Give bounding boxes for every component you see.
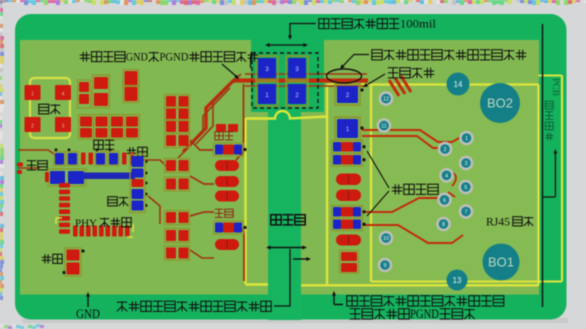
svg-text:8: 8 xyxy=(442,222,445,228)
svg-text:13: 13 xyxy=(453,276,462,285)
label 晶振 xyxy=(39,104,49,114)
blue power bus xyxy=(84,173,135,180)
annotation 此隔离区域不要走任何信号线 xyxy=(117,301,127,311)
transformer width arrow xyxy=(266,246,307,250)
transformer arrow right xyxy=(293,257,311,261)
resistor pad-pair column xyxy=(165,95,190,261)
PCB edge arrow xyxy=(553,149,557,197)
RJ45 pin pads xyxy=(377,91,474,272)
capacitor below PHY xyxy=(62,248,84,276)
svg-text:100mil: 100mil xyxy=(400,18,437,31)
label 电容 (mid) xyxy=(108,197,117,206)
svg-text:4: 4 xyxy=(445,173,448,179)
keepout boundary yellow lines xyxy=(246,76,563,286)
svg-text:1: 1 xyxy=(465,136,468,142)
GND arrow xyxy=(86,292,90,307)
svg-text:GND: GND xyxy=(76,307,100,321)
svg-text:2: 2 xyxy=(443,147,446,153)
mounting pad 14 xyxy=(447,73,470,96)
svg-text:12: 12 xyxy=(383,97,389,103)
RJ45 keepout inner tint xyxy=(371,85,539,282)
svg-text:9: 9 xyxy=(383,263,386,269)
board shadow xyxy=(22,318,568,323)
svg-text:PHY: PHY xyxy=(75,218,97,230)
annotation 我们需将其PGND处理好 xyxy=(350,309,361,319)
bulk capacitors C big pair xyxy=(45,169,86,186)
svg-text:3: 3 xyxy=(464,161,467,167)
svg-text:3: 3 xyxy=(62,124,65,130)
svg-text:RJ45: RJ45 xyxy=(486,217,510,229)
label 变压器 xyxy=(271,215,281,225)
transformer isolation strip xyxy=(268,110,301,320)
leader to traces xyxy=(340,55,369,70)
annotation RJ45网口 xyxy=(486,217,533,229)
red signal traces xyxy=(18,74,463,281)
label 电容 red bottom xyxy=(215,209,223,217)
label 电容 red top xyxy=(215,132,223,140)
annotation 此隔离区域大于100mil xyxy=(319,19,329,29)
mounting hole BO1 xyxy=(483,244,520,281)
PHY chip U1 pins xyxy=(56,183,133,237)
svg-text:BO1: BO1 xyxy=(488,255,514,270)
mounting hole BO2 xyxy=(480,83,520,123)
leader top xyxy=(288,24,316,41)
svg-text:10: 10 xyxy=(383,236,389,242)
mounting pad 13 xyxy=(447,270,468,291)
svg-text:BO2: BO2 xyxy=(487,96,513,111)
PCB edge bracket xyxy=(543,24,556,307)
leader tick xyxy=(250,56,252,68)
svg-text:GND: GND xyxy=(126,51,148,64)
inner copper pour (light green) xyxy=(20,40,539,295)
annotation 共模电阻 xyxy=(392,184,402,194)
capacitor column right of bus xyxy=(130,155,148,213)
pill resistor column xyxy=(214,124,247,250)
leader lines 共模电阻 xyxy=(367,151,389,216)
annotation 用于连接GND和PGND的电阻及电容 xyxy=(80,52,90,62)
svg-text:PGND: PGND xyxy=(160,51,189,64)
leader to HV caps xyxy=(222,64,239,79)
capacitor C pads xyxy=(93,75,110,108)
isolation channel top block xyxy=(251,40,324,112)
crystal Y1 outline xyxy=(30,78,70,138)
left edge stubs xyxy=(17,163,23,175)
svg-text:7: 7 xyxy=(464,210,467,216)
label 电容 (bottom left) xyxy=(42,254,51,263)
svg-text:5: 5 xyxy=(464,185,467,191)
leader to HV cap xyxy=(363,74,385,87)
label 电容 (right) xyxy=(127,147,136,156)
label PHY层芯片 xyxy=(75,218,131,230)
svg-text:6: 6 xyxy=(443,198,446,204)
vertical label PCB边缘绝缘 xyxy=(551,78,561,96)
annotation 高压电容 xyxy=(388,68,398,78)
svg-text:1: 1 xyxy=(31,92,34,98)
isolation width arrow xyxy=(265,43,308,47)
high-voltage capacitors block xyxy=(256,56,308,106)
capacitor pair C near crystal xyxy=(78,80,91,108)
svg-text:PGND: PGND xyxy=(410,307,439,321)
svg-text:11: 11 xyxy=(381,124,387,130)
crystal Y1 pads xyxy=(25,85,72,132)
trace highlight ellipse xyxy=(327,69,362,83)
annotation 此区域通常不覆地和电源，但 xyxy=(347,296,358,306)
HV capacitors near RJ45 xyxy=(335,84,364,140)
decoupling capacitor row xyxy=(54,148,134,165)
capacitor row packages xyxy=(79,115,140,140)
label 电容 (row) xyxy=(94,140,103,149)
svg-text:PCB: PCB xyxy=(551,78,561,96)
isolation dashed outline xyxy=(252,53,318,108)
resistor pads column xyxy=(123,70,139,103)
leader to bottom text xyxy=(274,249,290,306)
right region arrow xyxy=(332,291,343,305)
label 电容 (left) xyxy=(27,161,36,170)
annotation 指示灯信号驱动线及其电源线 xyxy=(372,50,382,60)
svg-text:14: 14 xyxy=(454,80,463,89)
common-mode resistor column xyxy=(332,141,366,274)
svg-text:2: 2 xyxy=(31,124,34,130)
svg-text:4: 4 xyxy=(62,92,65,98)
